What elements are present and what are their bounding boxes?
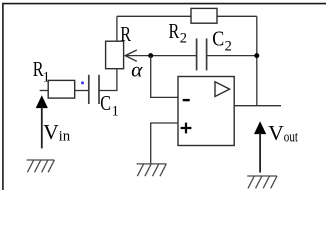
potentiometer R (rectangle) [106,41,124,68]
wire: pot top stub [116,16,118,41]
Vout arrow [254,121,266,134]
svg-text:α: α [131,57,143,81]
ground (left, under Vin) [27,160,55,172]
wire: top run from pot top to R2 [117,15,191,17]
wire: op-amp output [234,105,281,107]
svg-text:in: in [59,128,71,144]
svg-text:1: 1 [112,104,119,120]
svg-text:R: R [169,19,180,43]
svg-text:V: V [43,120,59,144]
wire: R1 to C1 [75,90,89,92]
svg-text:R: R [120,22,131,46]
wire: C1 right plate up to pot bottom [99,68,117,91]
wire: R2 to right vertical [217,15,257,17]
svg-text:C: C [100,91,111,115]
border frame (left + top, cropped figure) [3,4,326,190]
ground (right, under Vout) [247,176,277,188]
capacitor C1 plates [88,75,90,104]
svg-text:C: C [212,27,224,51]
wire: wiper to C2 left plate [125,55,197,57]
stray blue dot artifact [81,81,84,84]
ground (mid, op-amp + input) [137,164,167,176]
capacitor C2 plates [196,39,198,71]
resistor R1 [48,80,74,98]
svg-text:1: 1 [43,70,50,86]
Vin arrow [36,95,48,108]
resistor R2 [191,8,217,23]
wiper arrow of pot [125,50,137,61]
op-amp minus sign [183,99,190,101]
svg-text:V: V [268,121,284,145]
node dot: C2/R2 output junction [254,53,259,58]
op-amp U1 (rectangle body) [178,77,234,146]
op-amp triangle [215,82,230,97]
wire: C2 right plate to right vertical [207,55,257,57]
wire: input stub to R1 [40,90,49,92]
wire: junction down to inverting input [151,56,178,98]
op-amp plus sign [181,123,192,134]
svg-text:out: out [284,130,298,146]
wire: non-inverting input to ground drop [151,123,178,164]
svg-text:2: 2 [180,31,187,47]
svg-text:2: 2 [225,38,232,54]
wire: right vertical down to output [256,16,258,105]
node dot: wiper / inverting input junction [148,53,153,58]
